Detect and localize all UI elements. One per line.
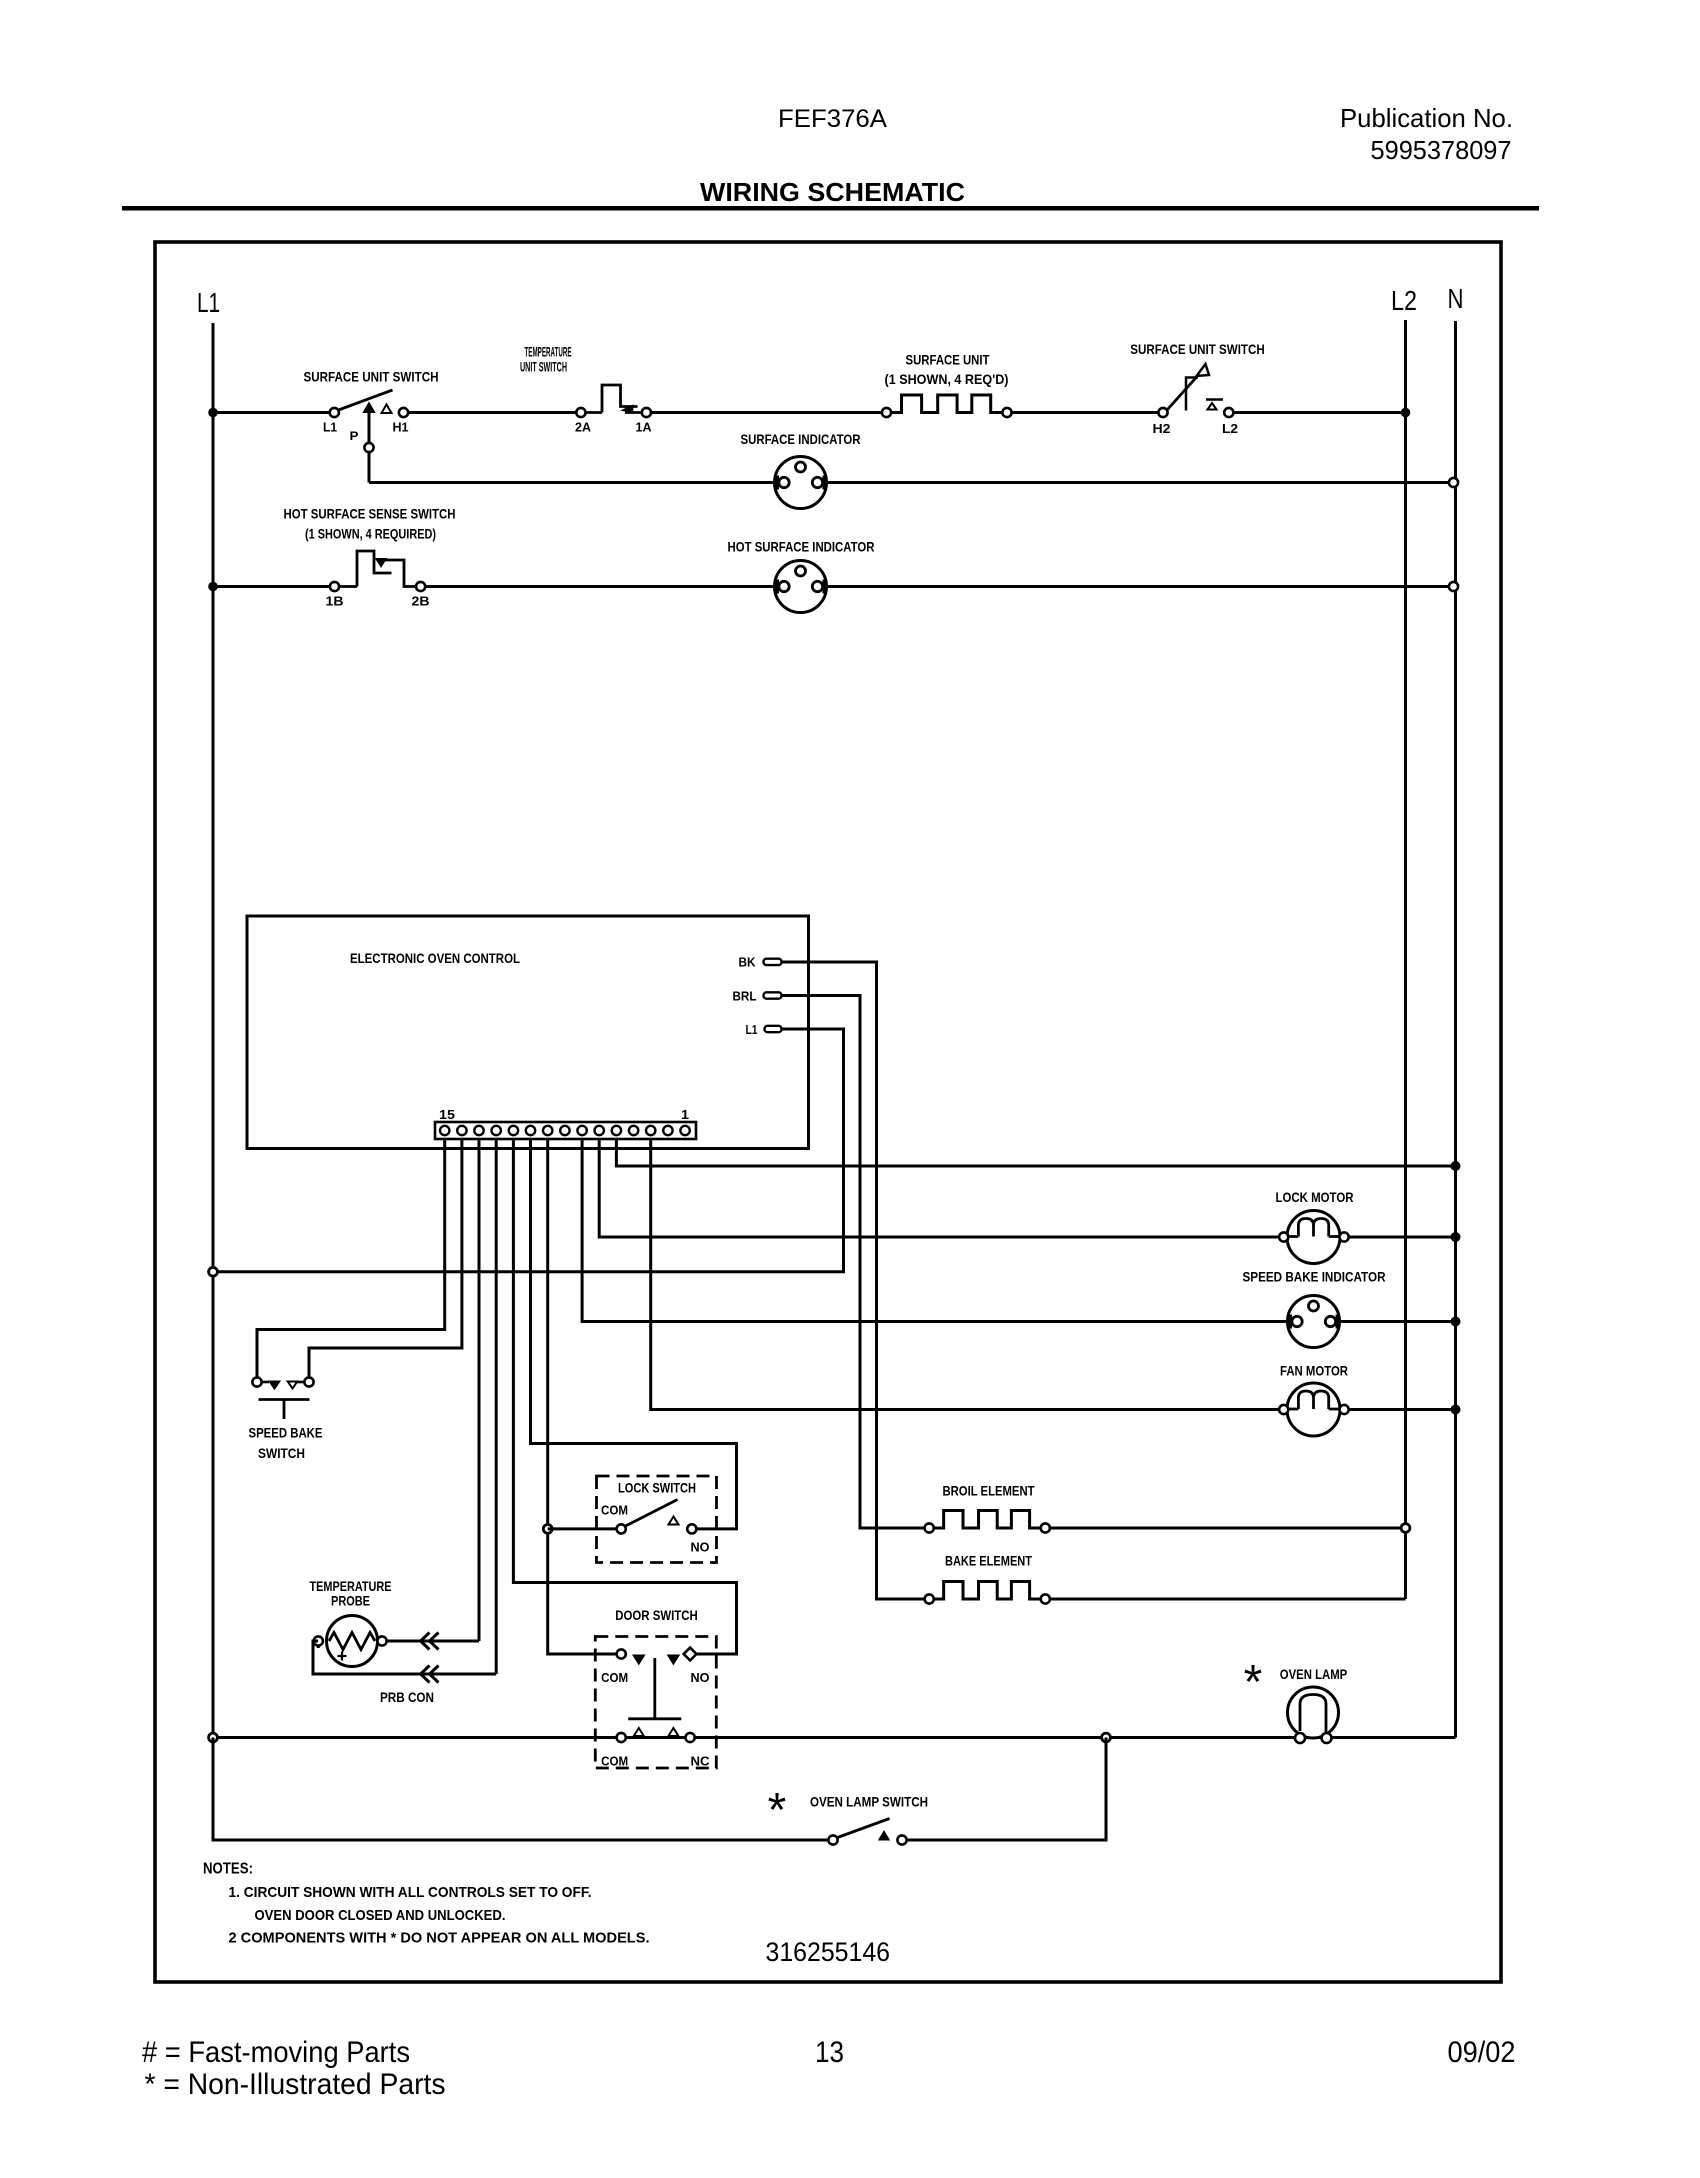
pin label P (350, 429, 359, 443)
surface unit switch blade (339, 390, 393, 410)
svg-text:(1 SHOWN, 4 REQUIRED): (1 SHOWN, 4 REQUIRED) (305, 526, 436, 542)
svg-text:SPEED BAKE: SPEED BAKE (249, 1425, 323, 1441)
temperature limit switch terminal 1A (636, 408, 653, 435)
svg-text:WIRING SCHEMATIC: WIRING SCHEMATIC (700, 177, 965, 207)
svg-text:OVEN LAMP SWITCH: OVEN LAMP SWITCH (810, 1794, 928, 1810)
terminal hot surface indicator at N (1449, 582, 1458, 591)
svg-text:COM: COM (601, 1754, 628, 1769)
svg-text:# = Fast-moving Parts: # = Fast-moving Parts (142, 2036, 410, 2069)
door switch upper COM label (601, 1670, 628, 1685)
svg-text:HOT SURFACE SENSE SWITCH: HOT SURFACE SENSE SWITCH (284, 506, 456, 522)
hot surface sense switch contact bridge (339, 551, 416, 587)
wire broil element to L2 bus (1050, 1527, 1406, 1530)
EOC connector L1 (746, 1022, 782, 1037)
terminal strip pin label 15 (439, 1107, 455, 1122)
junction L1 bus at lamp circuit (209, 1733, 218, 1742)
hot surface indicator label (728, 539, 875, 555)
wire fan motor to N bus (1349, 1408, 1456, 1411)
surface unit element label (885, 352, 1009, 388)
junction speed bake indicator wire at N bus (1451, 1317, 1461, 1327)
svg-text:*: * (768, 1784, 787, 1837)
junction oven lamp switch branch (1102, 1733, 1111, 1742)
oven lamp label (1280, 1666, 1348, 1682)
node L2 label (1391, 285, 1417, 316)
svg-text:P: P (350, 429, 359, 443)
hot surface indicator lamp (775, 561, 827, 613)
svg-text:ELECTRONIC OVEN CONTROL: ELECTRONIC OVEN CONTROL (350, 950, 520, 966)
surface unit heating element (882, 395, 1012, 417)
wire surface unit to right surface unit switch (1012, 411, 1159, 414)
door switch lower NC terminal (686, 1733, 695, 1742)
EOC connector BK (739, 955, 782, 970)
lock motor label (1276, 1189, 1354, 1205)
wire pin7 to lock motor (599, 1139, 1279, 1237)
svg-text:FEF376A: FEF376A (778, 105, 887, 133)
wire H1 to temperature limit switch (408, 411, 577, 414)
wire pin13 to temperature probe (478, 1139, 481, 1641)
door switch lower COM label (601, 1754, 628, 1769)
svg-text:L2: L2 (1222, 421, 1238, 436)
hot surface sense switch label (284, 506, 456, 542)
svg-text:SURFACE UNIT: SURFACE UNIT (906, 352, 990, 368)
electronic oven control box (247, 916, 809, 1149)
EOC connector BRL (733, 989, 782, 1004)
title WIRING SCHEMATIC (700, 177, 965, 207)
wire lock motor to N bus (1349, 1236, 1456, 1239)
right surface unit switch blade and arrow (1167, 364, 1223, 411)
right surface unit switch terminal L2 (1222, 408, 1238, 436)
wire pin12 to probe connector return (495, 1139, 498, 1674)
junction broil wire at L2 bus (1401, 1524, 1410, 1533)
svg-text:L2: L2 (1391, 285, 1417, 316)
svg-text:BK: BK (739, 955, 757, 970)
svg-text:1. CIRCUIT SHOWN WITH ALL CO: 1. CIRCUIT SHOWN WITH ALL CONTROLS SET T… (229, 1884, 592, 1901)
oven lamp switch (828, 1819, 906, 1845)
wire pin10 to lock switch NO (531, 1139, 737, 1529)
terminal P (364, 443, 373, 452)
temperature limit switch terminal 2A (575, 408, 592, 435)
svg-text:L1: L1 (323, 420, 337, 435)
svg-text:(1 SHOWN, 4 REQ'D): (1 SHOWN, 4 REQ'D) (885, 371, 1009, 387)
svg-text:SURFACE UNIT SWITCH: SURFACE UNIT SWITCH (304, 369, 439, 385)
svg-text:BRL: BRL (733, 989, 757, 1004)
note 1 line 1 (229, 1884, 592, 1901)
wire L1 to hot surface sense switch (213, 585, 330, 588)
wire L1 to surface unit switch (213, 411, 330, 414)
svg-text:UNIT SWITCH: UNIT SWITCH (520, 359, 567, 375)
wire BK to bake element (782, 962, 925, 1599)
svg-text:NO: NO (691, 1540, 710, 1555)
svg-text:2A: 2A (575, 420, 592, 435)
svg-text:2 COMPONENTS WITH * DO N: 2 COMPONENTS WITH * DO NOT APPEAR ON ALL… (229, 1930, 650, 1947)
oven lamp (1288, 1687, 1339, 1743)
door switch lower COM terminal (617, 1733, 626, 1742)
right surface unit switch label (1130, 341, 1265, 357)
node N label (1448, 283, 1464, 314)
terminal surface indicator at N (1449, 478, 1458, 487)
wire pin9 to lock switch COM and door switch COM (548, 1139, 617, 1654)
note 2 (229, 1930, 650, 1947)
surface unit switch terminal H1 (393, 408, 409, 435)
door switch dashed enclosure (595, 1637, 716, 1769)
svg-text:1A: 1A (636, 420, 653, 435)
right surface unit switch terminal H2 (1153, 408, 1171, 436)
speed bake switch terminals (252, 1377, 313, 1386)
svg-text:SWITCH: SWITCH (258, 1445, 305, 1461)
svg-text:15: 15 (439, 1107, 455, 1122)
svg-text:H2: H2 (1153, 421, 1171, 436)
lock switch NO contact arrow (669, 1517, 679, 1525)
wire L1 to oven lamp and N (through door switch lower contacts) (218, 1736, 1456, 1739)
junction L1 to row2 (208, 582, 218, 592)
svg-text:L1: L1 (197, 287, 220, 318)
temperature probe label (310, 1578, 392, 1609)
electronic oven control label (350, 950, 520, 966)
wire EOC L1 to L1 bus (218, 1029, 844, 1272)
svg-text:L1: L1 (746, 1022, 758, 1037)
drawing number 316255146 (766, 1937, 891, 1967)
wire pin15 to speed bake switch left (257, 1139, 445, 1377)
oven lamp switch asterisk (768, 1784, 787, 1837)
svg-text:OVEN LAMP: OVEN LAMP (1280, 1666, 1348, 1682)
temperature limit switch contact bridge (586, 385, 642, 413)
lock switch COM label (601, 1503, 628, 1518)
wire 2B to hot surface indicator (425, 585, 775, 588)
svg-text:13: 13 (815, 2036, 844, 2069)
junction L1 bus to EOC L1 wire (209, 1267, 218, 1276)
bake element label (945, 1553, 1032, 1569)
svg-text:SURFACE UNIT SWITCH: SURFACE UNIT SWITCH (1130, 341, 1265, 357)
door switch label (615, 1607, 698, 1623)
lock switch NO terminal (687, 1524, 696, 1533)
junction row1 to L2 bus (1401, 408, 1411, 418)
lock switch label (618, 1480, 696, 1496)
wire pin8 to speed bake indicator (582, 1139, 1290, 1322)
wire L1 bus vertical (212, 323, 215, 1840)
speed bake switch contacts (262, 1382, 305, 1389)
door switch upper NO terminal (diamond) (684, 1648, 697, 1661)
temperature probe body (314, 1616, 387, 1667)
door switch upper contact arrows (634, 1656, 679, 1664)
svg-text:09/02: 09/02 (1448, 2036, 1516, 2069)
wire pin4 to fan motor (651, 1139, 1290, 1410)
svg-text:LOCK SWITCH: LOCK SWITCH (618, 1480, 696, 1496)
svg-text:BROIL ELEMENT: BROIL ELEMENT (943, 1483, 1035, 1499)
svg-text:SPEED BAKE INDICATOR: SPEED BAKE INDICATOR (1243, 1269, 1386, 1285)
footer non-illustrated parts legend (145, 2068, 446, 2101)
oven lamp switch label (810, 1794, 928, 1810)
wire speed bake indicator to N bus (1337, 1320, 1456, 1323)
wire BRL to broil element (782, 996, 925, 1529)
surface indicator label (741, 431, 861, 447)
svg-text:1: 1 (681, 1107, 689, 1122)
junction lock motor wire at N bus (1451, 1232, 1461, 1242)
svg-text:N: N (1448, 283, 1464, 314)
svg-text:1B: 1B (326, 594, 344, 609)
svg-text:OVEN DOOR CLOSED AND UNLOCKED.: OVEN DOOR CLOSED AND UNLOCKED. (255, 1907, 506, 1924)
door switch actuator tee (628, 1658, 681, 1719)
svg-text:DOOR SWITCH: DOOR SWITCH (615, 1607, 698, 1623)
svg-text:COM: COM (601, 1503, 628, 1518)
lock motor (1279, 1211, 1349, 1264)
hot surface sense switch terminal 1B (326, 582, 344, 609)
door switch upper NO label (691, 1670, 710, 1685)
svg-text:NO: NO (691, 1670, 710, 1685)
svg-text:* = Non-Illustrated Parts: * = Non-Illustrated Parts (145, 2068, 446, 2101)
hot surface sense switch terminal 2B (412, 582, 430, 609)
lock switch NO label (691, 1540, 710, 1555)
svg-text:NC: NC (691, 1754, 711, 1769)
surface unit switch (left) terminal L1 (323, 408, 339, 435)
lock switch dashed enclosure (597, 1476, 717, 1563)
probe connector label PRB CON (380, 1689, 434, 1705)
speed bake switch label (249, 1425, 323, 1462)
footer page number 13 (815, 2036, 844, 2069)
svg-text:Publication No.: Publication No. (1340, 103, 1513, 133)
svg-text:H1: H1 (393, 420, 409, 435)
wire P branch to surface indicator (369, 481, 775, 484)
wire pin14 to speed bake switch right (309, 1139, 462, 1377)
svg-text:LOCK MOTOR: LOCK MOTOR (1276, 1189, 1354, 1205)
wire probe return to pin12 with connector chevrons (313, 1641, 496, 1683)
speed bake indicator lamp (1288, 1296, 1340, 1348)
svg-text:FAN MOTOR: FAN MOTOR (1280, 1363, 1348, 1379)
door switch lower contact arrows (634, 1728, 679, 1736)
svg-text:BAKE ELEMENT: BAKE ELEMENT (945, 1553, 1032, 1569)
junction L1 to row1 (208, 408, 218, 418)
wire N bus vertical (1454, 321, 1457, 1738)
svg-text:5995378097: 5995378097 (1371, 135, 1512, 165)
speed bake switch actuator bar (259, 1400, 310, 1420)
svg-text:PROBE: PROBE (331, 1593, 370, 1609)
lock switch COM terminal (617, 1524, 626, 1533)
speed bake indicator label (1243, 1269, 1386, 1285)
svg-text:HOT SURFACE INDICATOR: HOT SURFACE INDICATOR (728, 539, 875, 555)
surface indicator lamp (775, 457, 827, 509)
junction pin6 wire at N bus (1451, 1161, 1461, 1171)
junction fan motor wire at N bus (1451, 1405, 1461, 1415)
door switch upper COM terminal (617, 1649, 626, 1658)
wire L2 terminal to L2 bus (1234, 411, 1406, 414)
terminal strip pin label 1 (681, 1107, 689, 1122)
wire 1A to surface unit element (651, 411, 882, 414)
svg-text:SURFACE INDICATOR: SURFACE INDICATOR (741, 431, 861, 447)
wire P terminal branch vertical (368, 413, 371, 483)
svg-text:COM: COM (601, 1670, 628, 1685)
fan motor label (1280, 1363, 1348, 1379)
footer date 09/02 (1448, 2036, 1516, 2069)
lock switch blade (626, 1500, 678, 1527)
wire hot surface indicator to N bus (827, 585, 1456, 588)
oven lamp asterisk (1244, 1656, 1263, 1709)
node L1 label (197, 287, 220, 318)
surface unit switch contact arrow P (364, 404, 374, 413)
wire probe to pin13 with connector chevrons (387, 1633, 479, 1650)
footer fast-moving parts legend (142, 2036, 410, 2069)
schematic border frame (155, 242, 1501, 1982)
header publication no. (1340, 103, 1513, 165)
wire oven lamp switch branch (213, 1738, 1106, 1841)
surface unit switch label (304, 369, 439, 385)
temperature limit switch label (520, 344, 572, 375)
wire surface indicator to N bus (827, 481, 1456, 484)
svg-text:NOTES:: NOTES: (203, 1861, 253, 1878)
junction pin9 wire at lock switch COM (543, 1525, 552, 1534)
surface unit switch contact arrow H1 (382, 405, 392, 414)
wire L2 bus vertical (1404, 320, 1407, 1599)
wire lock COM junction to lock switch (548, 1527, 617, 1530)
svg-text:*: * (1244, 1656, 1263, 1709)
svg-text:TEMPERATURE: TEMPERATURE (525, 344, 572, 360)
wire bake element to L2 bus (1050, 1598, 1406, 1601)
bake element (925, 1582, 1050, 1604)
notes heading (203, 1861, 253, 1878)
header model number FEF376A (778, 105, 887, 133)
svg-text:PRB CON: PRB CON (380, 1689, 434, 1705)
door switch lower NC label (691, 1754, 711, 1769)
EOC terminal strip (435, 1122, 696, 1139)
broil element (925, 1511, 1050, 1533)
fan motor (1279, 1383, 1349, 1436)
wire pin6 to N bus (616, 1139, 1455, 1166)
title underline rule (122, 206, 1539, 211)
svg-text:2B: 2B (412, 594, 430, 609)
wire pin11 to door switch NO (513, 1139, 736, 1654)
broil element label (943, 1483, 1035, 1499)
note 1 line 2 (255, 1907, 506, 1924)
svg-text:316255146: 316255146 (766, 1937, 891, 1967)
